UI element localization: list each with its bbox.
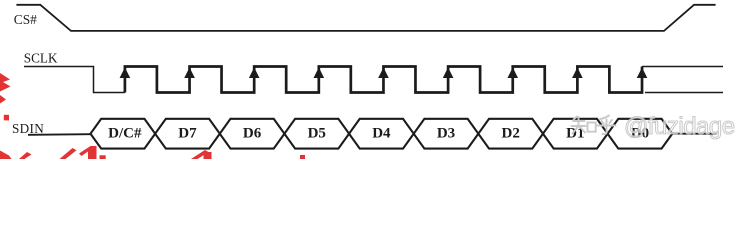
red watermark fragment left triangle bbox=[0, 95, 6, 104]
arrow clock rising edge 8 bbox=[572, 67, 583, 78]
svg-text:D3: D3 bbox=[437, 126, 455, 142]
red watermark fragment bottom stroke 4 bbox=[191, 150, 212, 159]
svg-text:CS#: CS# bbox=[14, 12, 37, 27]
svg-text:D4: D4 bbox=[372, 126, 391, 142]
wire SCLK initial thin segment bbox=[24, 67, 125, 93]
watermark zhihu logo 知 bbox=[572, 117, 596, 134]
wire SDIN leader bbox=[28, 133, 91, 136]
svg-text:D2: D2 bbox=[501, 126, 519, 142]
red watermark fragment tiny dot bbox=[300, 155, 305, 159]
svg-text:D/C#: D/C# bbox=[108, 126, 142, 142]
node SDIN data cell D4 bbox=[349, 119, 414, 149]
red watermark fragment bottom block bbox=[79, 146, 106, 159]
svg-text:D5: D5 bbox=[308, 126, 326, 142]
watermark text @fuzidage bbox=[624, 113, 735, 140]
node SDIN data cell D0 bbox=[608, 119, 673, 149]
red watermark fragment small square bbox=[4, 115, 9, 121]
node SDIN data cell D/C\# bbox=[91, 119, 156, 149]
arrow clock rising edge 2 bbox=[184, 67, 195, 78]
wire SCLK trailing high thin bbox=[642, 66, 723, 68]
node SDIN data cell D7 bbox=[155, 119, 220, 149]
arrow clock rising edge 5 bbox=[378, 67, 389, 78]
red watermark fragment bottom-left wedge bbox=[0, 151, 12, 160]
wire SCLK trailing low thin bbox=[645, 92, 723, 94]
node SDIN data cell D6 bbox=[220, 119, 285, 149]
wire SCLK thick pulse train bbox=[125, 67, 642, 93]
node SDIN data cell D1 bbox=[543, 119, 608, 149]
red watermark fragment bottom curve bbox=[60, 148, 77, 159]
watermark zhihu logo 乎 bbox=[597, 116, 616, 135]
node SDIN data cell D2 bbox=[478, 119, 543, 149]
red watermark fragment bottom slash 1 bbox=[19, 152, 32, 159]
arrow clock rising edge 4 bbox=[314, 67, 325, 78]
wire CS# waveform bbox=[16, 5, 715, 31]
svg-text:@fuzidage: @fuzidage bbox=[624, 113, 735, 140]
signal label SCLK bbox=[24, 51, 58, 66]
wire SDIN trailing bbox=[672, 133, 716, 135]
node SDIN data cell D5 bbox=[284, 119, 349, 149]
arrow clock rising edge 3 bbox=[249, 67, 260, 78]
arrow clock rising edge 6 bbox=[443, 67, 454, 78]
arrow clock rising edge 7 bbox=[507, 67, 518, 78]
arrow clock rising edge 9 bbox=[637, 67, 648, 78]
svg-text:D7: D7 bbox=[178, 126, 197, 142]
svg-text:SCLK: SCLK bbox=[24, 51, 58, 66]
signal label SDIN bbox=[12, 121, 44, 136]
svg-text:SDIN: SDIN bbox=[12, 121, 44, 136]
arrow clock rising edge 1 bbox=[120, 67, 131, 78]
signal label CS# bbox=[14, 12, 37, 27]
red watermark fragment left zigzag bbox=[0, 73, 11, 92]
svg-text:D6: D6 bbox=[243, 126, 262, 142]
node SDIN data cell D3 bbox=[414, 119, 479, 149]
